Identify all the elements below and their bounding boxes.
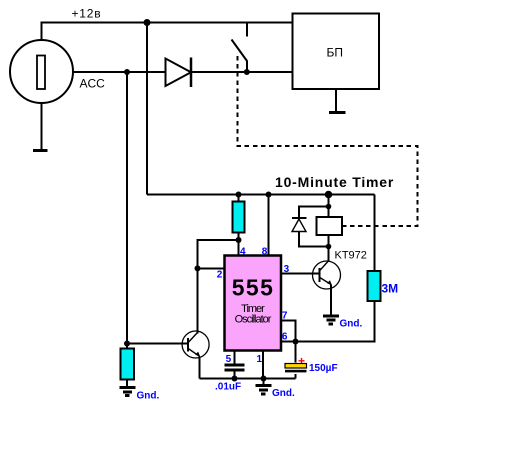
ground below pin1 [256, 379, 272, 395]
transistor Q2 KT972 [313, 261, 341, 289]
svg-text:Gnd.: Gnd. [340, 319, 363, 330]
junction on +12v rail [144, 19, 151, 26]
junction ACC line [124, 69, 130, 75]
wire R3 to ground [126, 380, 128, 388]
junction rail at relay (big) [325, 191, 333, 199]
svg-text:Gnd.: Gnd. [272, 388, 295, 399]
svg-text:ACC: ACC [80, 77, 106, 91]
wire relay top to flyback diode top [299, 207, 329, 218]
svg-text:Gnd.: Gnd. [137, 391, 160, 402]
junction rail at pin8 [266, 192, 272, 198]
diode D1 on ACC line [166, 59, 192, 87]
wire rail right corner down to 3M [374, 195, 376, 272]
resistor R3 [121, 349, 135, 380]
ignition switch S1 (key symbol) [10, 40, 73, 103]
junction below relay [326, 244, 332, 250]
wire pin8 from rail to chip [268, 195, 270, 256]
junction above relay [326, 204, 332, 210]
svg-text:2: 2 [217, 270, 223, 281]
wire relay bottom to Q2 collector [328, 235, 330, 261]
junction rail at R1 [236, 192, 242, 198]
svg-text:БП: БП [327, 46, 344, 60]
timer IC U1 555 [225, 256, 282, 351]
wire 3M down to pin6 line [281, 301, 375, 342]
wire +12v top rail [42, 23, 293, 41]
wire rail to R1 [238, 195, 240, 202]
wire pin3 to Q2 base [281, 273, 320, 275]
transistor Q1 [182, 331, 209, 358]
wire Q2 emitter to ground [330, 285, 332, 316]
wire timer supply rail [147, 194, 375, 196]
svg-text:8: 8 [262, 247, 268, 258]
junction pin1 ground [261, 376, 267, 382]
wire bottom ground line [200, 378, 296, 380]
svg-text:150µF: 150µF [309, 363, 338, 374]
wire BP to ground [335, 89, 337, 112]
flyback diode D2 [292, 217, 307, 219]
wire switch lever to ACC line [246, 61, 248, 73]
wire C2 bottom to ground line [295, 374, 297, 379]
svg-text:5: 5 [226, 354, 232, 365]
wire diode bottom to relay bottom [299, 231, 329, 247]
svg-text:.01uF: .01uF [215, 382, 241, 393]
wire ACC line [73, 71, 293, 73]
svg-text:4: 4 [240, 247, 246, 258]
junction pin6 line [293, 339, 299, 345]
junction at pin2 branch [195, 265, 201, 271]
dashed mechanical link from switch to relay [238, 56, 418, 226]
ground below R3 [120, 388, 136, 396]
capacitor C1 .01uF [225, 364, 245, 367]
wire pin5 from chip to C1 [234, 351, 236, 365]
resistor R1 [233, 202, 245, 233]
power supply unit BP box [293, 14, 380, 90]
wire pin4 junction to pin2 branch [198, 240, 239, 268]
ground below Q2 [323, 316, 339, 324]
wire Q1 emitter down to ground line [199, 357, 201, 379]
wire ignition switch to ground [41, 103, 43, 150]
wire pin2 branch down to Q1 collector [197, 268, 199, 333]
wire big junction down to relay [328, 195, 330, 218]
wire pin1 from chip [262, 351, 264, 379]
ground terminal below ignition switch [33, 149, 48, 152]
wire R1 to pin4 junction [238, 233, 240, 256]
wire ACC junction down left side [126, 72, 128, 349]
wire pin6 junction down to C2 [295, 342, 297, 363]
svg-text:+12в: +12в [72, 7, 102, 21]
svg-text:3M: 3M [382, 282, 399, 296]
svg-text:10-Minute Timer: 10-Minute Timer [275, 174, 394, 190]
wire pin7 to pin6 [281, 321, 296, 342]
relay K1 coil [317, 217, 343, 235]
wire from +12v rail down to timer rail [146, 23, 148, 195]
wire Q1 base from left rail [127, 343, 188, 345]
svg-text:555: 555 [232, 275, 275, 301]
switch S2 lever [232, 40, 248, 62]
junction below R1 [236, 237, 242, 243]
ground terminal below BP [329, 111, 346, 114]
capacitor C2 150uF electrolytic [285, 364, 307, 369]
junction C1 bottom [232, 376, 238, 382]
svg-text:KT972: KT972 [335, 250, 367, 262]
resistor R2 3M [368, 271, 381, 301]
switch S2 contact tick [246, 23, 248, 37]
junction switch on ACC line [244, 69, 250, 75]
svg-text:Oscillator: Oscillator [235, 314, 272, 326]
svg-text:1: 1 [257, 354, 263, 365]
junction Q1 base tap [124, 341, 130, 347]
